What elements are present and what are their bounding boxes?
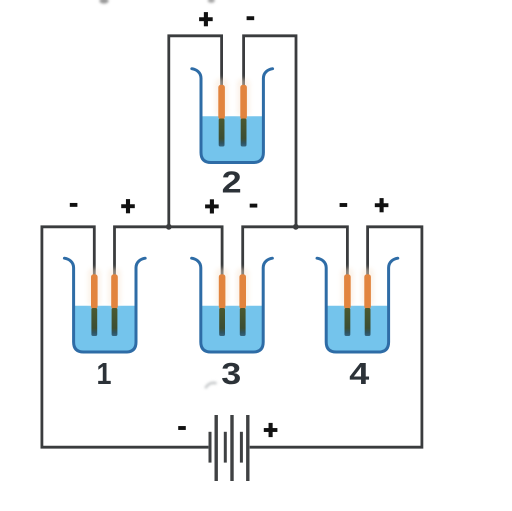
wire: cell1 right electrode over bus to cell3 left electrode — [115, 227, 223, 277]
faint cropped mark top-middle — [208, 0, 215, 3]
cell 1 right electrode (+) — [108, 268, 121, 306]
faint cropped mark top-left — [99, 0, 108, 4]
battery plate long 2 — [230, 415, 233, 481]
battery plate long 3 — [246, 415, 249, 481]
cell 4 right electrode (+) — [361, 268, 374, 306]
minus sign cell4 — [340, 203, 348, 207]
minus sign cell2 — [247, 16, 255, 20]
wire: cell3 right electrode over bus to cell4 left electrode — [243, 227, 348, 277]
wire: cell2 right electrode up around to bus junction — [244, 36, 296, 227]
cell 3 left electrode (+) — [216, 268, 229, 306]
svg-text:2: 2 — [222, 164, 242, 199]
cell 2 right electrode (-) — [237, 79, 250, 117]
battery plate short 3 — [240, 432, 243, 463]
wire: cell4 right electrode to right rail down to battery positive — [250, 227, 422, 447]
junction node left — [166, 224, 172, 230]
junction node right — [293, 224, 299, 230]
liquid (electrolyte) — [202, 116, 262, 161]
battery plate long 1 — [215, 415, 218, 481]
svg-text:3: 3 — [221, 356, 241, 391]
cell 1 glass outline — [64, 258, 145, 352]
wire: cell1 left electrode to left rail down to battery negative — [42, 227, 209, 447]
battery plate short 1 — [209, 432, 212, 463]
minus sign cell3 — [250, 204, 258, 208]
cell 4 left electrode (-) — [341, 268, 354, 306]
cell 3 glass outline — [192, 258, 273, 352]
plus sign cell2 — [199, 17, 213, 21]
cell 4 glass outline — [317, 258, 398, 352]
plus sign cell4 — [375, 203, 389, 207]
wire: bus junction up-left around cell2 to its left electrode — [169, 36, 222, 227]
plus sign battery — [264, 428, 278, 432]
liquid (electrolyte) — [202, 306, 262, 351]
cell 2 glass outline — [192, 69, 273, 163]
minus sign cell1 — [70, 203, 78, 207]
cell 1 left electrode (-) — [88, 268, 101, 306]
liquid (electrolyte) — [75, 306, 135, 351]
battery plate short 2 — [224, 432, 227, 463]
svg-text:4: 4 — [349, 356, 370, 391]
cell 3 right electrode (-) — [236, 268, 249, 306]
faint cropped arc above battery — [205, 383, 216, 388]
liquid (electrolyte) — [327, 306, 387, 351]
svg-text:1: 1 — [97, 356, 112, 391]
minus sign battery — [178, 426, 186, 430]
cell 2 left electrode (+) — [215, 79, 228, 117]
plus sign cell1 — [121, 204, 135, 208]
plus sign cell3 — [205, 204, 219, 208]
